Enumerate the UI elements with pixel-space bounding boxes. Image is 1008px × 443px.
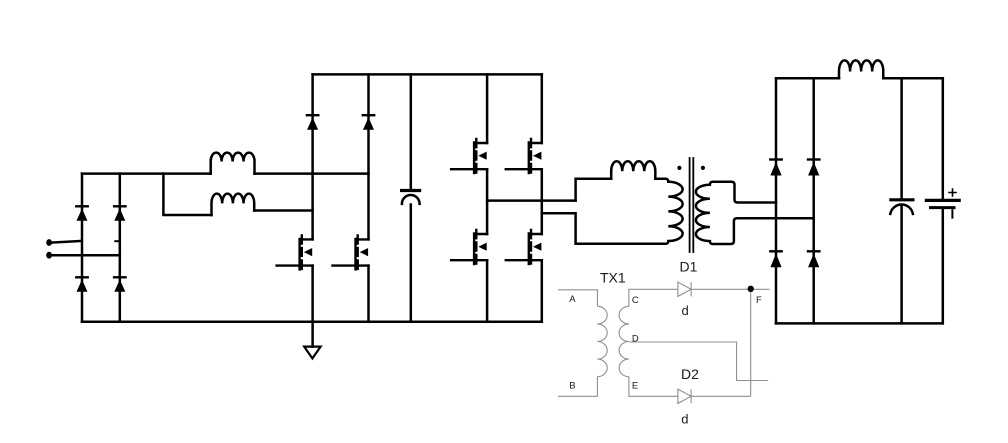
battery long plate <box>926 199 959 202</box>
boost diode 1 <box>307 115 318 130</box>
bridge mosfet Q3 <box>451 139 487 173</box>
TX1 terminal B lead <box>558 377 597 397</box>
svg-text:d: d <box>682 303 689 318</box>
svg-text:d: d <box>681 412 688 427</box>
node wire from L1 to boost legs <box>255 172 369 175</box>
output cap branch lower <box>900 207 903 324</box>
diode D1 symbol <box>678 282 691 296</box>
svg-text:F: F <box>756 295 762 306</box>
full bridge left column <box>486 74 489 321</box>
input terminal wire bottom <box>49 254 120 257</box>
right top rail left part <box>776 77 839 80</box>
detail subcircuit <box>558 282 770 403</box>
top rail <box>313 73 542 76</box>
svg-text:D2: D2 <box>681 366 699 382</box>
boost mosfet Q1 <box>277 235 313 269</box>
rectifier diode 4 <box>808 251 819 267</box>
transformer secondary winding and output tails <box>696 182 814 244</box>
boost diode 2 <box>363 115 374 130</box>
inductor L1 <box>211 153 255 174</box>
bridge mosfet Q5 <box>451 230 487 264</box>
diode D_in2 <box>114 206 125 221</box>
battery branch upper <box>942 78 945 198</box>
diode D_in3 <box>76 277 87 292</box>
dc link cap plate <box>402 189 420 192</box>
rectifier diode 1 <box>770 160 781 176</box>
dc link cap branch upper <box>410 74 413 188</box>
diode D2 symbol <box>678 389 691 403</box>
node F dot <box>748 286 754 292</box>
diode D_in4 <box>114 277 125 292</box>
dc link cap branch lower <box>410 205 413 322</box>
input terminal dot bottom <box>46 252 52 259</box>
wire L2 to boost leg 1 <box>254 209 312 212</box>
stub down to primary bottom <box>542 213 666 244</box>
TX1 secondary winding <box>619 306 629 376</box>
battery branch lower <box>942 209 945 323</box>
battery short plate <box>931 206 955 209</box>
input terminal dot top <box>46 239 52 246</box>
full bridge right column <box>541 74 544 321</box>
boost mosfet Q2 <box>333 235 369 269</box>
input bridge right leg <box>119 174 122 322</box>
transformer core <box>690 158 694 252</box>
svg-text:A: A <box>569 294 576 305</box>
output cap curved plate <box>890 205 913 214</box>
output inductor Lo <box>839 60 883 78</box>
TX1 terminal A lead <box>558 290 597 307</box>
transformer primary phase dot <box>677 166 681 170</box>
inductor L2 <box>212 194 255 215</box>
TX1 terminal E lead wire to D2 <box>629 377 678 397</box>
wire node F down to D2 output <box>750 289 752 396</box>
transformer primary winding <box>655 179 682 244</box>
wire D2 output <box>691 395 751 397</box>
ground stem <box>311 322 314 347</box>
right bottom rail <box>776 322 943 325</box>
rectifier diode 2 <box>808 160 819 176</box>
wire drop to L2 <box>163 174 211 215</box>
svg-text:B: B <box>569 380 575 391</box>
svg-text:D: D <box>632 333 639 344</box>
top node wire from bridge to inductor L1 <box>82 172 211 175</box>
diode D_in1 <box>76 206 87 221</box>
svg-text:C: C <box>632 295 639 306</box>
boost leg 1 lower <box>311 266 314 322</box>
input bridge left leg <box>81 174 84 322</box>
right top rail right part <box>883 77 943 80</box>
TX1 terminal C lead wire to D1 <box>629 289 678 306</box>
wire nub on right bridge leg <box>115 240 120 242</box>
stub up to resonant inductor <box>576 179 612 201</box>
output cap branch upper <box>900 78 903 198</box>
input terminal wire top <box>49 241 81 243</box>
svg-text:E: E <box>632 380 638 391</box>
right bridge right leg <box>812 78 815 323</box>
full bridge mid node wire <box>487 199 575 202</box>
resonant inductor Lr <box>611 161 655 179</box>
svg-text:D1: D1 <box>680 259 698 275</box>
boost leg 2 upper <box>367 74 370 239</box>
dc link cap curved plate <box>402 195 420 204</box>
boost leg 1 upper <box>311 74 314 239</box>
wire D1 to node F <box>691 288 770 290</box>
bridge mosfet Q4 <box>506 139 542 173</box>
output cap plate <box>891 198 913 201</box>
rectifier diode 3 <box>770 251 781 267</box>
battery plus sign <box>949 189 956 196</box>
TX1 center tap D wire <box>629 342 768 381</box>
right bridge left leg <box>775 78 778 323</box>
bottom rail <box>82 321 542 324</box>
battery minus tick <box>951 210 953 217</box>
transformer secondary phase dot <box>701 166 705 170</box>
TX1 primary winding <box>597 306 607 376</box>
svg-text:TX1: TX1 <box>600 270 626 286</box>
bridge mosfet Q6 <box>506 230 542 264</box>
boost leg 2 lower <box>367 266 370 322</box>
ground symbol <box>304 347 320 359</box>
